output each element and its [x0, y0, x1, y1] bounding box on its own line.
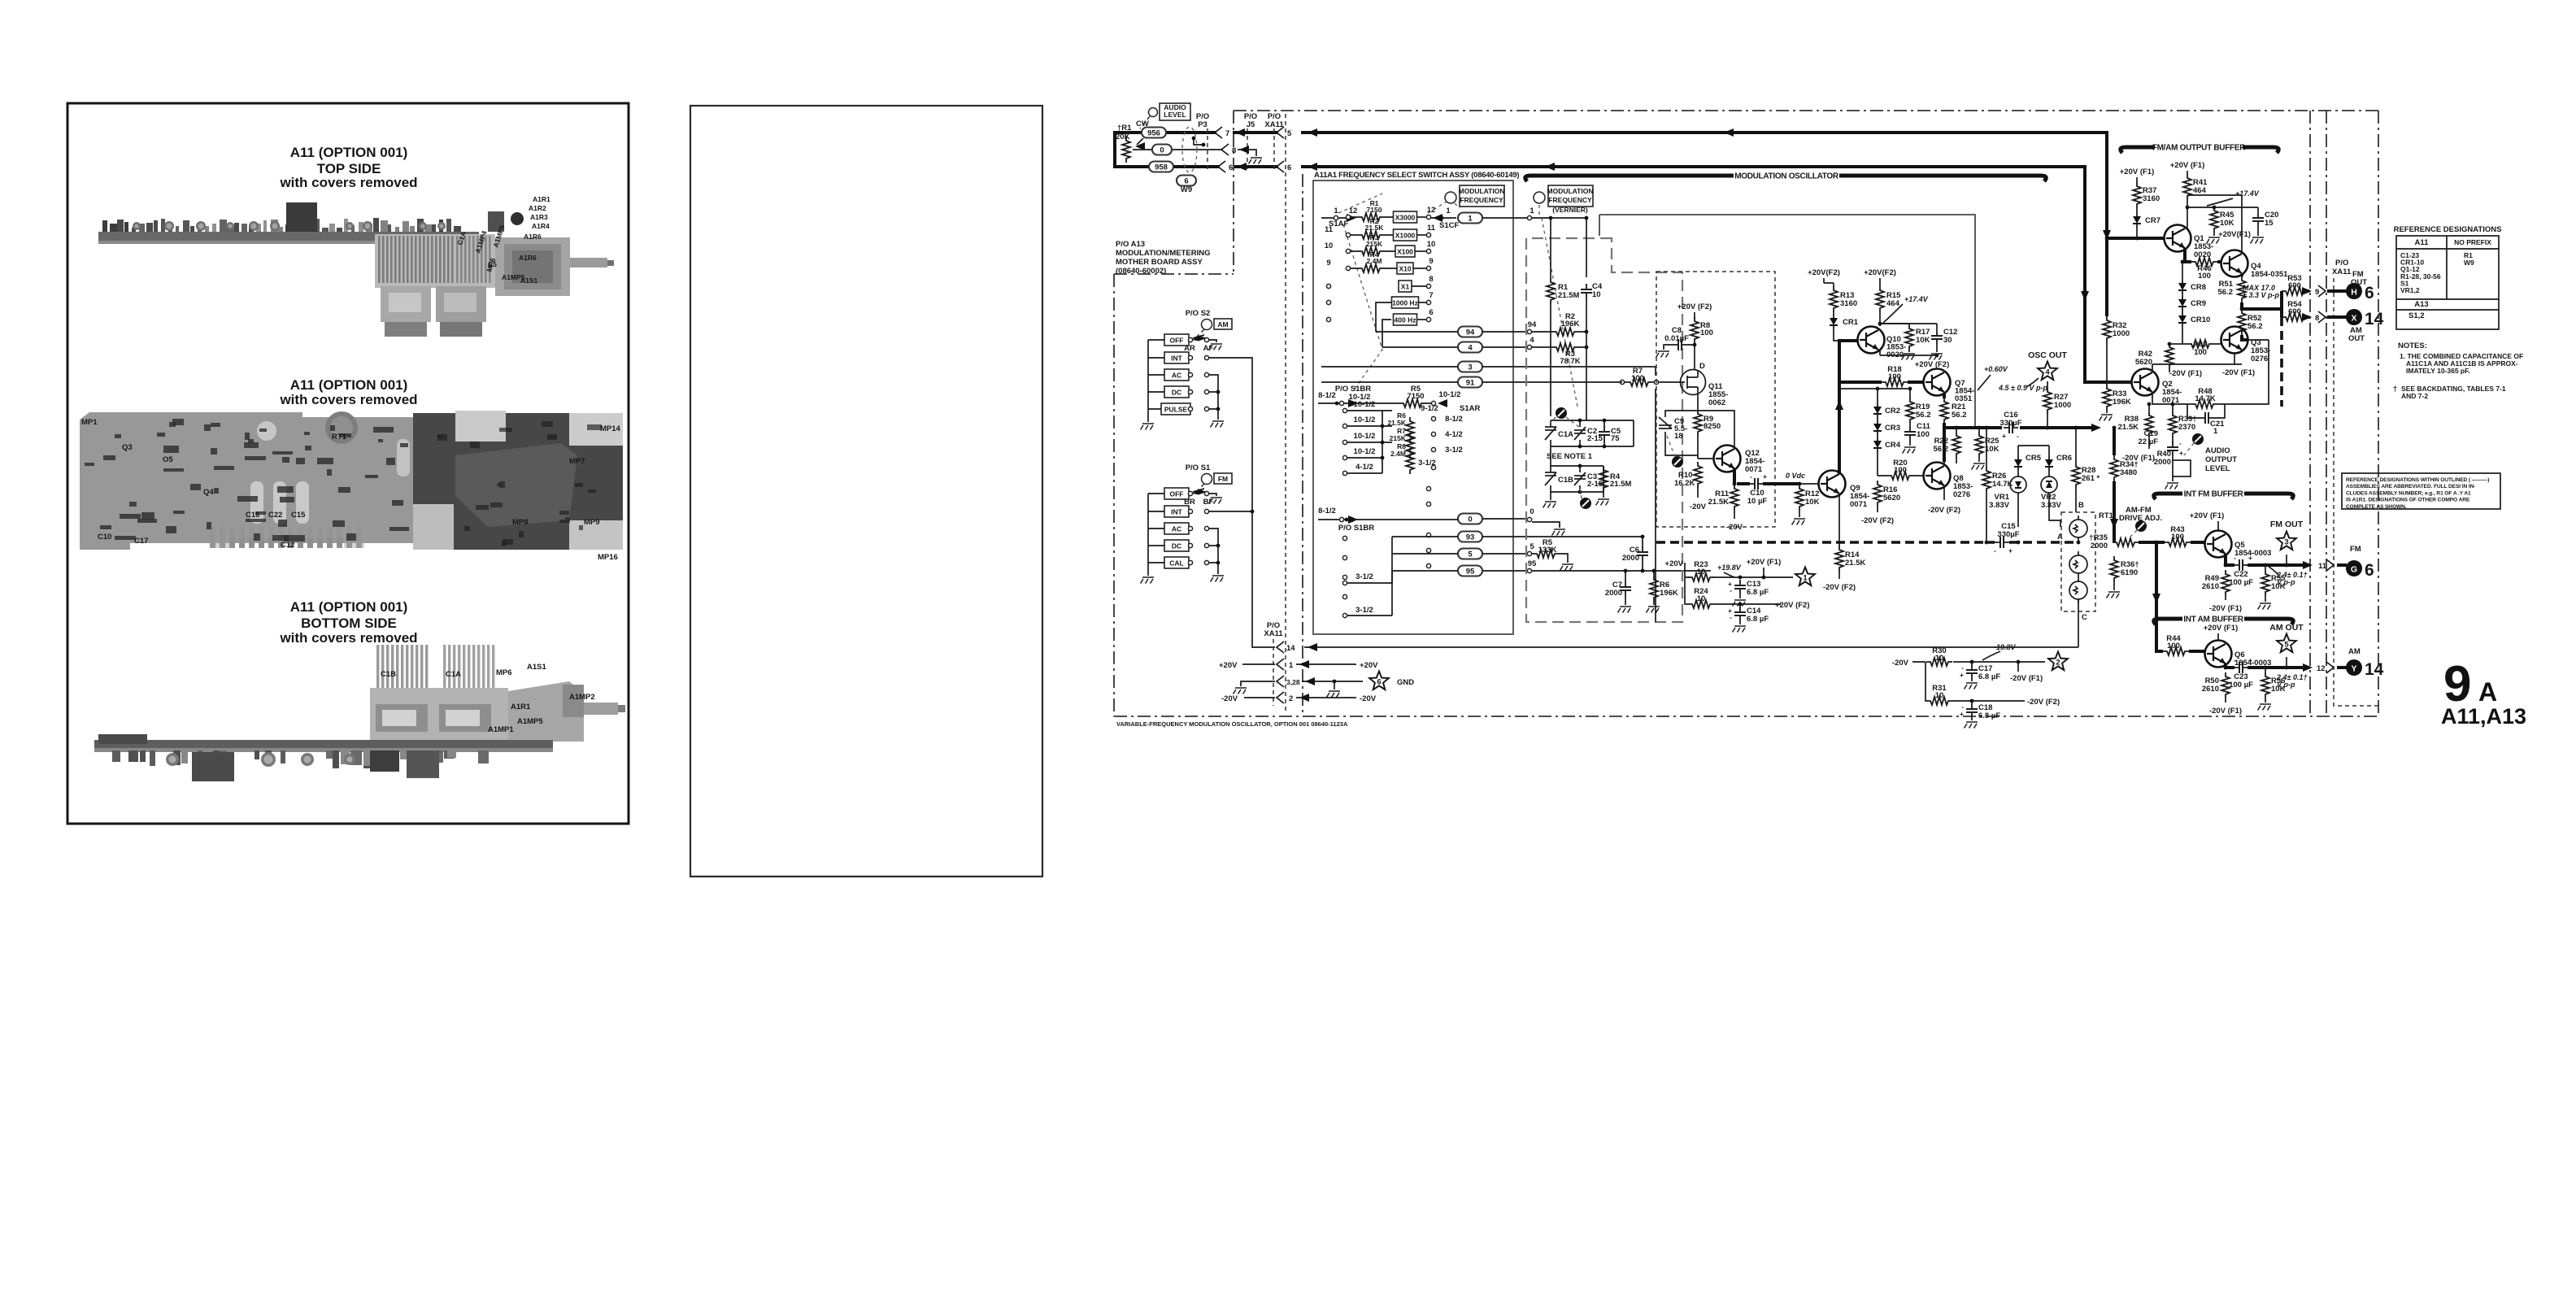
oval 4 net	[1458, 342, 1482, 353]
svg-text:C10: C10	[98, 533, 111, 542]
svg-text:11: 11	[2318, 562, 2327, 571]
svg-text:X3000: X3000	[1395, 214, 1416, 222]
svg-text:+20V (F2): +20V (F2)	[1677, 302, 1712, 311]
svg-text:BOTTOM SIDE: BOTTOM SIDE	[301, 616, 397, 631]
svg-text:8-1/2: 8-1/2	[1318, 391, 1336, 400]
svg-text:91: 91	[1466, 379, 1475, 388]
ground	[1211, 576, 1225, 582]
svg-text:100: 100	[1700, 328, 1713, 337]
svg-text:10K: 10K	[1916, 336, 1930, 345]
multiplier box X100	[1395, 246, 1415, 257]
svg-text:AF: AF	[1203, 344, 1214, 353]
switch S1 wiper	[1193, 489, 1204, 492]
svg-text:100: 100	[2198, 272, 2211, 281]
thick wire to INT buffers	[2129, 542, 2163, 543]
svg-text:3-1/2: 3-1/2	[1418, 459, 1436, 468]
adjustment screw	[1580, 498, 1591, 509]
svg-text:3: 3	[2284, 538, 2288, 547]
outer assembly border (dash-dot)	[1114, 111, 2378, 716]
svg-text:Q3: Q3	[122, 443, 133, 452]
svg-text:1854-0003: 1854-0003	[2234, 549, 2271, 558]
svg-text:A1R4: A1R4	[532, 222, 550, 230]
svg-text:2000: 2000	[2154, 458, 2171, 467]
svg-text:BR: BR	[1184, 498, 1195, 507]
resistor R10 16.2K	[1694, 462, 1702, 488]
svg-text:8250: 8250	[1704, 422, 1721, 431]
svg-text:GND: GND	[1397, 678, 1414, 687]
adjustment screw	[2192, 433, 2204, 445]
svg-text:+17.4V: +17.4V	[1904, 295, 1929, 303]
variable capacitor C1B	[1545, 472, 1556, 485]
svg-text:X1: X1	[1401, 283, 1410, 291]
svg-text:0: 0	[1529, 507, 1534, 516]
svg-text:464: 464	[1886, 299, 1900, 308]
svg-text:A11: A11	[2415, 238, 2430, 247]
svg-text:10K: 10K	[1805, 498, 1820, 507]
wire Q8 collector to bus	[1943, 462, 1945, 466]
switch S2 position AC	[1164, 369, 1189, 381]
svg-text:C1B: C1B	[381, 670, 396, 679]
capacitor C20 15	[2252, 212, 2264, 227]
wire S1 BF ground	[1209, 494, 1216, 496]
capacitor C21 1	[2200, 412, 2214, 424]
resistor R38 21.5K	[2145, 411, 2153, 437]
ganged switch linkage dashes	[1338, 194, 1577, 407]
modulation oscillator inner box outline	[1599, 215, 1975, 428]
vertical rail dash-dot at switch assembly left	[1302, 174, 1303, 712]
ground	[1327, 691, 1341, 698]
svg-text:B: B	[2078, 501, 2084, 510]
transistor Q8	[1924, 463, 1951, 489]
resistor R51 56.2	[2238, 276, 2246, 302]
svg-text:CR8: CR8	[2191, 283, 2206, 292]
svg-text:+: +	[2248, 554, 2252, 562]
diode CR5	[2014, 456, 2022, 471]
svg-text:2.4M: 2.4M	[1367, 257, 1382, 265]
svg-text:21.5K: 21.5K	[1365, 224, 1385, 232]
svg-text:1: 1	[2213, 427, 2218, 436]
capacitor C22 100uF series	[2234, 559, 2248, 571]
svg-text:6: 6	[2365, 561, 2374, 580]
svg-text:(08640-60002): (08640-60002)	[1116, 267, 1166, 276]
svg-text:2000: 2000	[2091, 542, 2108, 550]
svg-text:6190: 6190	[2121, 568, 2138, 577]
svg-text:INT: INT	[1171, 508, 1183, 516]
svg-text:7: 7	[1225, 129, 1229, 138]
svg-text:4-1/2: 4-1/2	[1445, 430, 1463, 439]
svg-text:+20V: +20V	[1219, 661, 1238, 670]
tuning capacitor block C1B C3 R4	[1551, 446, 1603, 492]
resistor R33 196K	[2103, 385, 2111, 411]
svg-text:O5: O5	[163, 455, 173, 464]
svg-text:MODULATION OSCILLATOR: MODULATION OSCILLATOR	[1734, 172, 1839, 181]
svg-text:MP6: MP6	[496, 668, 512, 677]
adjustment screw	[1556, 407, 1567, 419]
svg-text:A13: A13	[2414, 300, 2428, 309]
svg-text:-20V: -20V	[1726, 523, 1743, 532]
svg-text:FM/AM OUTPUT BUFFER: FM/AM OUTPUT BUFFER	[2152, 144, 2246, 153]
svg-text:2: 2	[1289, 694, 1293, 703]
svg-text:8: 8	[1232, 146, 1236, 155]
svg-text:W9: W9	[2464, 259, 2474, 267]
wire S2 right column to ground	[1209, 375, 1218, 420]
svg-text:9: 9	[1326, 259, 1330, 268]
svg-text:S1,2: S1,2	[2408, 311, 2425, 320]
svg-text:AC: AC	[1172, 372, 1181, 380]
resistor R3 78.7K	[1552, 343, 1578, 351]
resistor R9 8250	[1694, 410, 1702, 436]
svg-text:FM: FM	[2350, 545, 2361, 554]
pin 14	[1277, 642, 1284, 653]
wire Q2 collector/emitter	[2152, 364, 2242, 404]
wire top bus to XA11 pin5 (thick)	[1301, 133, 2107, 234]
resistor R32 1000	[2103, 316, 2111, 342]
svg-text:9: 9	[1429, 257, 1433, 266]
svg-text:5: 5	[1287, 129, 1292, 138]
svg-text:30: 30	[1943, 336, 1952, 345]
svg-text:4: 4	[1468, 344, 1473, 353]
wire Q12 collector up	[1698, 411, 1734, 449]
resistor R6 196K	[1650, 576, 1658, 602]
resistor R22 56.2	[1952, 432, 1960, 458]
transistor Q3	[2221, 327, 2248, 354]
wire 956 to pin7	[1133, 131, 1216, 134]
svg-text:CAL: CAL	[1169, 559, 1183, 568]
thermistor network RT1	[2061, 512, 2095, 611]
svg-text:+: +	[2008, 546, 2012, 555]
svg-text:A11 (OPTION 001): A11 (OPTION 001)	[290, 377, 408, 393]
svg-text:Y: Y	[2351, 664, 2356, 674]
resistor R1 21.5M	[1547, 278, 1555, 304]
svg-text:INT FM BUFFER: INT FM BUFFER	[2184, 490, 2244, 499]
header FM/AM output buffer	[2121, 147, 2155, 153]
svg-text:9: 9	[2315, 288, 2319, 297]
wire 1000Hz 400Hz to common	[1376, 302, 1392, 347]
svg-text:A1R2: A1R2	[529, 204, 546, 212]
wire S1 right column ground	[1209, 529, 1218, 574]
svg-text:+20V: +20V	[1360, 661, 1378, 670]
ground	[2258, 603, 2272, 610]
svg-text:NO PREFIX: NO PREFIX	[2454, 238, 2491, 246]
svg-text:+: +	[2002, 432, 2006, 440]
switch S1 position CAL	[1164, 557, 1189, 568]
wire Q8 emitter	[1943, 486, 1945, 500]
resistor R16 5620	[1873, 481, 1882, 507]
multiplier box X10	[1397, 263, 1413, 274]
svg-text:-20V (F1): -20V (F1)	[2010, 674, 2043, 683]
svg-text:5: 5	[1529, 542, 1534, 551]
svg-text:6.8 µF: 6.8 µF	[1747, 615, 1769, 624]
svg-text:6: 6	[1377, 678, 1381, 687]
wire net 3 vertical	[1655, 367, 1656, 622]
svg-text:XA11: XA11	[1264, 629, 1283, 638]
svg-text:21.5M: 21.5M	[1558, 291, 1579, 300]
svg-text:94: 94	[1466, 328, 1475, 337]
wire S1 left bus	[1147, 494, 1149, 576]
transistor Q11 1855-0062 (FET)	[1681, 370, 1706, 395]
svg-text:3-1/2: 3-1/2	[1355, 606, 1373, 615]
resistor R37 3160	[2133, 182, 2141, 208]
ground	[1209, 498, 1223, 504]
svg-text:AND 7-2: AND 7-2	[2401, 392, 2428, 400]
svg-text:3160: 3160	[2143, 194, 2160, 203]
svg-text:400 Hz: 400 Hz	[1395, 316, 1416, 324]
pin 3,28 ground	[1241, 681, 1275, 686]
trimmer capacitor C2 2-15	[1574, 427, 1586, 440]
wire Q5 output line thick	[2226, 554, 2309, 565]
svg-text:10: 10	[1325, 241, 1334, 250]
switch S1 position AC	[1164, 523, 1189, 534]
svg-text:+: +	[1960, 710, 1964, 718]
svg-text:56.2: 56.2	[1934, 445, 1949, 454]
svg-text:CR4: CR4	[1885, 441, 1901, 450]
flag OSC OUT	[2038, 362, 2057, 381]
wire oval 95 net	[1458, 566, 1482, 576]
svg-text:SEE NOTE 1: SEE NOTE 1	[1547, 452, 1593, 461]
svg-text:3,28: 3,28	[1286, 678, 1300, 686]
wire Q3 collector to R52 node thick	[2247, 338, 2250, 341]
svg-text:NOTES:: NOTES:	[2398, 341, 2427, 350]
ground	[1560, 564, 1574, 571]
S1BR lower left ladder	[1342, 536, 1347, 540]
multiplier box X1000	[1394, 229, 1417, 241]
wire second bus to XA11 pin6 (thick)	[1301, 167, 2131, 382]
svg-text:0: 0	[1160, 146, 1164, 155]
ground	[1141, 424, 1155, 430]
svg-text:261 *: 261 *	[2082, 474, 2100, 483]
svg-text:J5: J5	[1247, 120, 1255, 129]
svg-text:A1MP2: A1MP2	[569, 693, 595, 702]
svg-text:-: -	[2017, 432, 2019, 440]
diode CR6	[2045, 456, 2053, 471]
svg-text:215K: 215K	[1390, 434, 1407, 442]
ground	[1211, 421, 1225, 428]
switch S2 position PULSE	[1161, 403, 1190, 415]
svg-text:PULSE: PULSE	[1164, 406, 1188, 414]
resistor R25 10K	[1975, 432, 1983, 458]
diode chain CR2 CR3 CR4	[1873, 403, 1882, 418]
svg-text:1854-0351: 1854-0351	[2251, 270, 2288, 279]
svg-text:REFERENCE DESIGNATIONS: REFERENCE DESIGNATIONS	[2394, 225, 2502, 234]
svg-text:4: 4	[1529, 336, 1534, 345]
svg-text:INT AM BUFFER: INT AM BUFFER	[2183, 616, 2244, 624]
svg-text:ASSEMBLIES ARE ABBREVIATED. F: ASSEMBLIES ARE ABBREVIATED. FULL DESI IN…	[2346, 484, 2475, 489]
wire oval 0 net	[1458, 514, 1482, 524]
cable label 958	[1149, 162, 1173, 172]
svg-text:P/O S1: P/O S1	[1186, 463, 1211, 472]
svg-text:CR10: CR10	[2191, 315, 2210, 324]
svg-text:+20V (F1): +20V (F1)	[2190, 511, 2225, 520]
oval 3 net	[1458, 362, 1482, 372]
resistor R28 261	[2072, 463, 2080, 489]
svg-text:OFF: OFF	[1170, 337, 1184, 345]
svg-text:10K: 10K	[2220, 219, 2234, 228]
svg-text:VR1,2: VR1,2	[2400, 286, 2420, 294]
ground	[1618, 607, 1632, 613]
svg-text:S1AR: S1AR	[1460, 404, 1480, 413]
svg-text:12: 12	[2317, 664, 2326, 673]
svg-text:958: 958	[1155, 163, 1168, 172]
svg-text:MP14: MP14	[600, 424, 621, 433]
capacitor C5 75	[1599, 426, 1610, 441]
vertical dashed rail	[1285, 114, 1286, 712]
svg-text:-: -	[2234, 554, 2236, 562]
resistor R41 464	[2183, 174, 2191, 200]
svg-text:MODULATION: MODULATION	[1547, 187, 1594, 195]
svg-text:MP9: MP9	[584, 518, 600, 527]
svg-text:CR2: CR2	[1885, 407, 1900, 415]
svg-text:with covers removed: with covers removed	[279, 630, 417, 646]
svg-text:0276: 0276	[2251, 355, 2268, 363]
svg-text:A1R1: A1R1	[511, 703, 531, 711]
ground	[1209, 344, 1223, 350]
svg-text:3.83V: 3.83V	[2041, 501, 2061, 510]
photo rotary switch A1S1	[495, 237, 570, 296]
transistor Q10	[1858, 327, 1885, 354]
svg-text:1000: 1000	[2113, 329, 2130, 338]
svg-text:X100: X100	[1397, 248, 1413, 256]
svg-text:V p-p: V p-p	[2277, 578, 2295, 586]
zener VR1 3.83V	[2010, 476, 2026, 493]
ground flag 6	[1369, 672, 1389, 690]
svg-text:78.7K: 78.7K	[1560, 357, 1580, 366]
svg-text:100 µF: 100 µF	[2229, 578, 2253, 587]
svg-text:A1R6: A1R6	[524, 233, 542, 241]
svg-text:1: 1	[1446, 207, 1451, 215]
svg-text:100: 100	[2194, 348, 2207, 357]
svg-text:8: 8	[1429, 275, 1433, 284]
svg-text:7150: 7150	[1367, 206, 1382, 214]
transistor Q5	[2205, 531, 2232, 558]
ground	[1543, 502, 1557, 508]
wire pin6 to XA11 pin6	[1234, 165, 1278, 168]
switch S1 position OFF	[1164, 488, 1189, 499]
svg-text:12: 12	[1427, 206, 1436, 215]
svg-text:BF: BF	[1203, 498, 1214, 507]
wire S2 AF ground	[1209, 340, 1216, 342]
multiplier box 400 Hz	[1394, 314, 1417, 325]
svg-text:FREQUENCY: FREQUENCY	[1548, 196, 1592, 204]
svg-text:0276: 0276	[1953, 490, 1970, 499]
svg-text:A1R6: A1R6	[519, 254, 537, 262]
svg-text:CLUDES ASSEMBLY NUMBER; e.g.,: CLUDES ASSEMBLY NUMBER; e.g., R1 OF A .Y…	[2346, 490, 2471, 496]
S1BR right contacts	[1431, 416, 1435, 420]
svg-text:10-1/2: 10-1/2	[1354, 432, 1376, 441]
svg-text:1: 1	[1468, 215, 1473, 224]
wire pin8 ground stub	[1238, 150, 1256, 156]
svg-text:P3: P3	[1198, 120, 1207, 129]
svg-text:+20V (F2): +20V (F2)	[1775, 601, 1810, 610]
svg-text:-20V (F2): -20V (F2)	[1861, 516, 1894, 525]
cable label 0	[1152, 145, 1172, 155]
wire Q1 collector	[2187, 225, 2188, 228]
transistor Q12	[1714, 446, 1741, 472]
svg-text:8: 8	[2315, 314, 2319, 323]
wire S2 left bus	[1147, 340, 1149, 422]
adjustment screw	[2135, 520, 2147, 532]
wire Q1 emitter to R46	[2185, 248, 2191, 262]
svg-text:18: 18	[1674, 432, 1683, 441]
oval 94 net	[1458, 327, 1482, 337]
svg-text:RT1: RT1	[332, 433, 347, 442]
svg-text:-: -	[2179, 439, 2182, 447]
ground	[1141, 577, 1155, 584]
svg-text:X: X	[2351, 314, 2356, 324]
capacitor C23 100uF series	[2234, 662, 2248, 673]
wire 0 to pin8	[1133, 149, 1223, 150]
svg-text:AM: AM	[1217, 320, 1228, 328]
capacitor C9 5.5-18 variable	[1659, 417, 1672, 428]
resistor R49 2610	[2221, 570, 2230, 596]
svg-text:3.83V: 3.83V	[1989, 501, 2009, 510]
cable bundle ellipse	[1182, 127, 1197, 172]
svg-text:196K: 196K	[1660, 589, 1678, 598]
svg-text:C5: C5	[488, 260, 497, 268]
wire Q6 output line thick	[2226, 663, 2309, 668]
ground	[1552, 529, 1566, 536]
svg-text:C17: C17	[134, 537, 148, 546]
svg-text:+19.8V: +19.8V	[1717, 563, 1742, 572]
transistor Q4	[2221, 250, 2248, 277]
svg-text:C: C	[2082, 613, 2087, 622]
wire net 91 R7 junction	[1620, 381, 1622, 383]
flag FM OUT	[2277, 532, 2296, 550]
svg-text:A1MP5: A1MP5	[517, 717, 543, 726]
resistor R34 3480	[2110, 455, 2118, 481]
svg-text:5: 5	[2284, 641, 2289, 650]
variable capacitor C1A	[1545, 427, 1556, 440]
svg-text:with covers removed: with covers removed	[279, 175, 417, 190]
svg-text:0.01µF: 0.01µF	[1664, 334, 1689, 343]
svg-text:-: -	[1994, 546, 1996, 555]
svg-text:1: 1	[1529, 207, 1534, 215]
ground	[1656, 351, 1670, 358]
svg-text:100 µF: 100 µF	[2229, 681, 2253, 690]
svg-text:6: 6	[2365, 284, 2374, 302]
svg-text:AM OUT: AM OUT	[2269, 623, 2304, 633]
wire INT bus down to XA11 pin 14	[1252, 511, 1275, 647]
oval 91 net	[1458, 377, 1482, 388]
svg-text:10: 10	[1427, 240, 1436, 249]
wire net 1 into vernier	[1532, 218, 1586, 277]
svg-text:AR: AR	[1184, 344, 1195, 353]
svg-text:1: 1	[1803, 574, 1808, 583]
capacitor C13 6.8uF	[1734, 580, 1746, 594]
svg-text:XA11: XA11	[2332, 268, 2352, 276]
net label 1	[1458, 213, 1482, 224]
svg-text:0071: 0071	[1850, 500, 1868, 509]
switch S2 position DC	[1164, 386, 1189, 398]
svg-text:-19.8V: -19.8V	[1994, 643, 2017, 651]
svg-text:75: 75	[1611, 434, 1620, 443]
svg-text:6.8 µF: 6.8 µF	[1978, 672, 2000, 681]
svg-text:15: 15	[2265, 219, 2274, 228]
svg-text:MP8: MP8	[512, 518, 529, 527]
resistor R11 21.5K	[1730, 485, 1738, 511]
wire pin7 to XA11 pin5	[1233, 131, 1278, 134]
ground	[1733, 600, 1747, 607]
svg-text:-20V: -20V	[1892, 659, 1909, 668]
adjustment screw	[1672, 456, 1683, 468]
svg-text:0 Vdc: 0 Vdc	[1786, 472, 1805, 480]
switch S1 position INT	[1164, 506, 1189, 517]
svg-text:A1R1: A1R1	[533, 195, 550, 203]
svg-text:COMPLETE AS SHOWN.: COMPLETE AS SHOWN.	[2346, 504, 2407, 510]
svg-text:C16: C16	[246, 511, 259, 520]
ground	[1965, 683, 1978, 690]
resistor R8 100	[1690, 317, 1699, 343]
heavy dashed AM line	[2280, 317, 2283, 407]
